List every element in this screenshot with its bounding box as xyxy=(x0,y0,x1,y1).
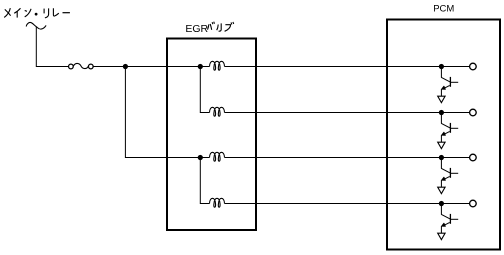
svg-text:PCM: PCM xyxy=(433,3,454,14)
svg-text:EGR: EGR xyxy=(185,23,208,35)
